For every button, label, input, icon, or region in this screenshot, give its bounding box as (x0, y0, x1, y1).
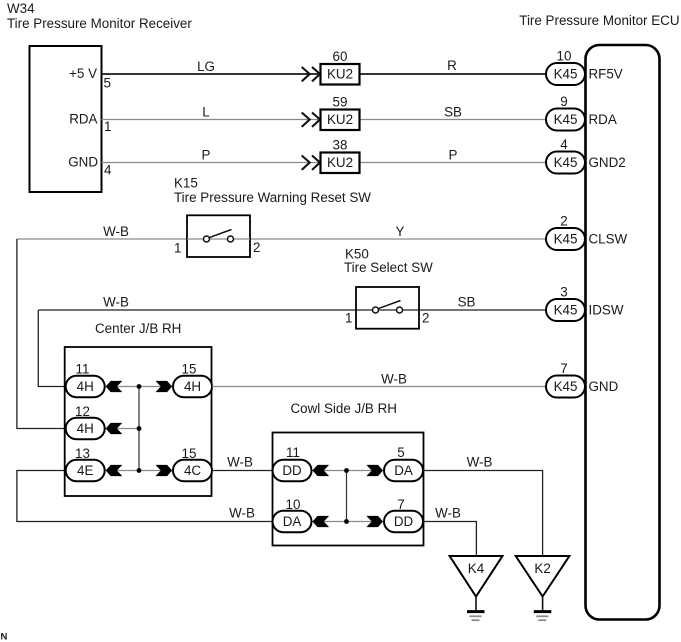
wire DD7 to ground K4 (423, 522, 476, 557)
svg-text:GND2: GND2 (589, 155, 626, 170)
connector K45 pin 9 (546, 94, 585, 131)
svg-text:4H: 4H (77, 379, 94, 394)
svg-text:5: 5 (104, 76, 111, 91)
connector KU2 pin 59 (321, 95, 360, 131)
wire 4C to DD (212, 470, 273, 472)
connector 4H pin 11 (66, 362, 105, 398)
svg-text:11: 11 (76, 362, 90, 377)
svg-text:N: N (1, 632, 8, 642)
svg-text:Tire Pressure Warning Reset SW: Tire Pressure Warning Reset SW (174, 190, 371, 205)
svg-text:4C: 4C (184, 463, 201, 478)
connector DD pin 11 (273, 445, 312, 481)
svg-text:Center J/B RH: Center J/B RH (95, 321, 181, 336)
junction block Center J/B RH box (65, 347, 212, 496)
svg-text:1: 1 (104, 119, 111, 134)
svg-text:11: 11 (286, 445, 300, 460)
connector arrow chevrons row3 (302, 156, 320, 170)
wire left rail A (17, 239, 66, 429)
svg-text:59: 59 (333, 95, 348, 110)
connector K45 pin 10 (546, 49, 585, 86)
svg-text:DA: DA (283, 514, 302, 529)
svg-text:K45: K45 (554, 231, 578, 246)
wire internal bus (138, 387, 140, 471)
arrow left row3 (106, 465, 123, 476)
wire KU2 to K45 GND2 (360, 162, 547, 164)
svg-text:P: P (202, 148, 211, 163)
junction dot row2 (137, 426, 142, 431)
arrow left cowl row1 (313, 465, 330, 476)
wire W-B to K15 CLSW (17, 238, 546, 240)
svg-text:IDSW: IDSW (589, 302, 624, 317)
connector 4H pin 12 (66, 404, 105, 439)
ground K4 triangle (450, 556, 503, 597)
junction dot row1 (137, 384, 142, 389)
connector KU2 pin 60 (321, 49, 360, 85)
svg-text:60: 60 (333, 49, 348, 64)
svg-text:GND: GND (589, 379, 619, 394)
svg-text:3: 3 (560, 285, 567, 300)
connector arrow chevrons row2 (302, 113, 320, 127)
svg-text:W-B: W-B (103, 295, 129, 310)
connector DD pin 7 (384, 497, 423, 532)
svg-text:DD: DD (282, 463, 302, 478)
connector K45 pin 4 (546, 137, 585, 174)
connector 4E pin 13 (66, 446, 105, 481)
svg-text:+5 V: +5 V (69, 66, 97, 81)
wire RDA to KU2 (102, 119, 321, 121)
wire +5V to KU2 (102, 73, 321, 75)
svg-text:L: L (202, 105, 209, 120)
svg-text:K2: K2 (534, 561, 550, 576)
svg-text:Cowl Side J/B RH: Cowl Side J/B RH (291, 401, 397, 416)
svg-text:2: 2 (253, 240, 260, 255)
arrow right cowl row1 (366, 465, 383, 476)
svg-text:Tire Pressure Monitor ECU: Tire Pressure Monitor ECU (519, 13, 679, 28)
svg-text:5: 5 (397, 445, 404, 460)
svg-text:K45: K45 (554, 155, 578, 170)
svg-text:W-B: W-B (103, 224, 129, 239)
svg-text:W-B: W-B (381, 372, 407, 387)
svg-text:W-B: W-B (467, 455, 493, 470)
svg-text:RDA: RDA (69, 112, 97, 127)
svg-text:15: 15 (182, 362, 197, 377)
svg-text:38: 38 (333, 138, 348, 153)
switch K50 (356, 287, 419, 329)
svg-text:7: 7 (560, 361, 567, 376)
connector KU2 pin 38 (321, 138, 360, 174)
svg-text:1: 1 (174, 241, 181, 256)
connector K45 pin 3 (546, 285, 585, 322)
arrow left row1 (106, 381, 123, 392)
svg-text:DA: DA (394, 463, 413, 478)
svg-text:Tire Select SW: Tire Select SW (344, 260, 433, 275)
ground K2 symbol (534, 597, 552, 621)
ECU box (586, 45, 660, 620)
connector 4C pin 15 (173, 446, 212, 481)
junction dot row3 (137, 468, 142, 473)
svg-text:4: 4 (560, 137, 568, 152)
svg-text:KU2: KU2 (327, 155, 353, 170)
wire W-B to K50 IDSW (38, 309, 546, 311)
junction block Cowl Side J/B RH box (273, 433, 424, 546)
svg-text:CLSW: CLSW (589, 231, 628, 246)
svg-text:4H: 4H (184, 379, 201, 394)
svg-text:R: R (447, 58, 457, 73)
wire internal row2 (105, 428, 139, 430)
wire internal cowl bus (346, 471, 348, 522)
wire GND to KU2 (102, 162, 321, 164)
svg-text:9: 9 (560, 94, 567, 109)
svg-text:KU2: KU2 (327, 66, 353, 81)
svg-text:SB: SB (444, 105, 462, 120)
wire DA5 to ground K2 (423, 471, 543, 557)
svg-text:K45: K45 (554, 66, 578, 81)
arrow right cowl row2 (366, 516, 383, 527)
svg-text:DD: DD (394, 514, 414, 529)
connector K45 pin 7 (546, 361, 585, 398)
svg-text:P: P (449, 148, 458, 163)
svg-text:K15: K15 (174, 176, 198, 191)
receiver W34 box (30, 46, 102, 192)
svg-text:W-B: W-B (227, 455, 253, 470)
svg-text:4: 4 (104, 163, 112, 178)
svg-text:10: 10 (557, 49, 572, 64)
switch K15 (187, 215, 250, 257)
connector K45 pin 2 (546, 214, 585, 251)
svg-text:4H: 4H (77, 421, 94, 436)
arrow left row2 (106, 423, 123, 434)
svg-text:W34: W34 (7, 1, 35, 16)
wire left rail C (17, 471, 273, 522)
svg-text:Tire Pressure Monitor Receiver: Tire Pressure Monitor Receiver (7, 16, 192, 31)
connector DA pin 5 (384, 445, 423, 481)
svg-text:1: 1 (345, 311, 352, 326)
svg-text:W-B: W-B (229, 506, 255, 521)
wire internal cowl row1 (312, 470, 385, 472)
wire KU2 to K45 RF5V (360, 73, 547, 75)
wire internal row1 (105, 386, 173, 388)
svg-text:W-B: W-B (435, 506, 461, 521)
svg-text:KU2: KU2 (327, 112, 353, 127)
svg-text:SB: SB (458, 295, 476, 310)
svg-text:2: 2 (560, 214, 567, 229)
svg-text:LG: LG (197, 59, 215, 74)
svg-text:K45: K45 (554, 112, 578, 127)
svg-text:K45: K45 (554, 302, 578, 317)
svg-text:Y: Y (396, 224, 405, 239)
connector arrow chevrons row1 (302, 67, 320, 81)
junction dot cowl row2 (344, 519, 349, 524)
wire KU2 to K45 RDA (360, 119, 547, 121)
svg-text:RDA: RDA (589, 112, 617, 127)
svg-text:GND: GND (68, 155, 98, 170)
svg-text:2: 2 (422, 311, 429, 326)
wire internal cowl row2 (312, 521, 385, 523)
arrow right row3 (156, 465, 173, 476)
arrow right row1 (156, 381, 173, 392)
wire internal row3 (105, 470, 173, 472)
wire 4H15 to K45 GND (212, 386, 546, 388)
svg-text:K4: K4 (468, 561, 485, 576)
svg-text:RF5V: RF5V (589, 66, 623, 81)
svg-text:K45: K45 (554, 379, 578, 394)
junction dot cowl row1 (344, 468, 349, 473)
connector 4H pin 15 (173, 362, 212, 398)
svg-text:4E: 4E (77, 463, 93, 478)
wire left rail B (38, 310, 65, 387)
arrow left cowl row2 (313, 516, 330, 527)
ground K4 symbol (467, 597, 485, 621)
connector DA pin 10 (273, 497, 312, 532)
ground K2 triangle (516, 556, 570, 597)
